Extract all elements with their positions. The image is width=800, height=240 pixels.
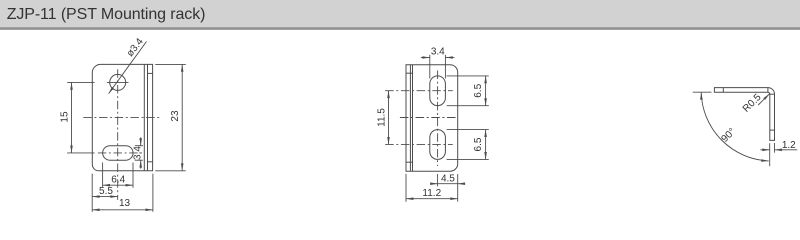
angle 90: arc with arrows xyxy=(701,92,769,161)
svg-text:1.2: 1.2 xyxy=(782,140,796,151)
side view: plate outline xyxy=(406,65,458,171)
dimension 11.5: dimension line xyxy=(388,91,390,145)
svg-text:23: 23 xyxy=(170,110,181,122)
profile view: bend tangent tick in horizontal leg xyxy=(722,88,724,93)
dimension 6.4: right extension line xyxy=(132,163,134,188)
front view: slot outline xyxy=(103,146,133,161)
dimension 11.2: dimension line xyxy=(406,198,458,200)
angle 90: horizontal extension line xyxy=(693,91,712,93)
side view: bend line inner xyxy=(409,65,411,171)
front view: vertical centerline through hole and slot xyxy=(117,69,119,200)
dimension 23: top extension line xyxy=(155,63,186,65)
side view: slot 2 outline xyxy=(430,130,446,160)
dimension 13: dimension line xyxy=(92,209,153,211)
hole leader dia 3.4: leader line xyxy=(109,42,147,94)
svg-text:11.5: 11.5 xyxy=(377,108,388,127)
dimension 6.5 lower: bottom extension line xyxy=(447,158,489,160)
dimensions 5.5 and 13: shared left extension line xyxy=(91,174,93,212)
side view: mid-height centerline xyxy=(400,117,458,119)
side view: slot 1 outline xyxy=(430,76,446,106)
profile view: bend end tick at corner right xyxy=(770,93,775,95)
dimension 3.4 top: right extension line xyxy=(444,55,446,79)
svg-text:6.4: 6.4 xyxy=(111,174,125,185)
svg-text:3.4: 3.4 xyxy=(132,146,143,160)
dimension 4.5: left extension line xyxy=(437,174,439,186)
dimension 6.5 upper: top extension line xyxy=(447,75,489,77)
dimension 6.4: left extension line xyxy=(102,163,104,188)
front view: bend line outer tangent xyxy=(147,64,149,170)
dimension 3.4 top: left extension line xyxy=(429,55,431,79)
side view: flange corner tick top xyxy=(406,72,413,74)
side view: flange corner tick bottom xyxy=(406,161,413,163)
dimension 15: dimension line xyxy=(71,82,73,152)
profile view: bend tangent tick in vertical leg xyxy=(770,129,775,131)
dimension 11.2: left extension line xyxy=(405,174,407,202)
svg-text:6.5: 6.5 xyxy=(473,83,484,97)
svg-text:ø3.4: ø3.4 xyxy=(125,36,146,59)
svg-text:11.2: 11.2 xyxy=(422,188,441,199)
dimension 1.2: right extension line xyxy=(774,143,776,153)
front view: mid-height centerline xyxy=(83,117,160,119)
dimension 1.2: right outside arrow with tail xyxy=(775,149,798,151)
svg-text:90°: 90° xyxy=(719,126,737,144)
front view: flange corner tick top xyxy=(148,72,153,74)
dimension 4.5: left outside arrow xyxy=(432,183,438,185)
dimension 5.5: dimension line xyxy=(92,196,118,198)
dimension 4.5: dimension line xyxy=(438,183,458,185)
front view: flange corner tick bottom xyxy=(148,161,153,163)
dimension 15: top extension line xyxy=(67,81,94,83)
front view: slot horizontal centerline xyxy=(98,152,142,154)
svg-text:4.5: 4.5 xyxy=(441,174,455,185)
side view: slot 2 horizontal centerline xyxy=(385,143,453,145)
dimension 23: bottom extension line xyxy=(155,170,186,172)
side view: bend line outer xyxy=(412,65,414,171)
svg-text:3.4: 3.4 xyxy=(431,47,445,58)
svg-text:ZJP-11 (PST Mounting rack): ZJP-11 (PST Mounting rack) xyxy=(7,6,206,23)
side view: slots vertical centerline xyxy=(437,71,439,167)
dimension 3.4 slot width: top extension line xyxy=(135,145,143,147)
dimension 4.5: right outside arrow xyxy=(458,183,464,185)
dimension 3.4 top: left arrow xyxy=(421,57,430,59)
front view: bend line inner xyxy=(143,64,145,170)
dimension 6.4: dimension line xyxy=(103,184,133,186)
svg-text:13: 13 xyxy=(119,198,131,209)
svg-text:15: 15 xyxy=(60,111,71,123)
svg-text:6.5: 6.5 xyxy=(473,137,484,151)
dimension 1.2: left outside arrow xyxy=(760,149,769,151)
front view: hole circle dia 3.4 xyxy=(110,74,126,90)
svg-text:5.5: 5.5 xyxy=(99,186,113,197)
angle 90: vertical extension line xyxy=(769,143,771,166)
dimension 6.5 upper: dimension line xyxy=(485,76,487,106)
front view: plate outline xyxy=(92,64,152,170)
profile view: L-section outline xyxy=(714,88,774,141)
front view: hole horizontal centerline xyxy=(107,81,129,83)
profile view: bend start tick at corner top xyxy=(767,88,769,93)
radius R0.5 leader line xyxy=(758,94,769,105)
dimension 6.5 lower: dimension line xyxy=(485,130,487,160)
header bar xyxy=(0,0,800,27)
dimension 23: dimension line xyxy=(181,64,183,170)
dimension 6.5 upper: bottom extension line xyxy=(447,105,489,107)
dimension 4.5: right extension line shared with 11.2 xyxy=(457,174,459,202)
dimension 6.5 lower: top extension line xyxy=(447,129,489,131)
dimension 3.4 slot width: lower arrow xyxy=(140,160,142,168)
dimension 3.4 top: right arrow xyxy=(445,57,454,59)
dimension 3.4 slot width: upper arrow xyxy=(140,137,142,145)
header bottom border xyxy=(0,27,800,30)
dimension 15: bottom extension line xyxy=(67,152,94,154)
side view: slot 1 horizontal centerline xyxy=(385,90,453,92)
dimension 3.4 slot width: bottom extension line xyxy=(135,159,143,161)
dimension 13: right extension line xyxy=(152,174,154,212)
